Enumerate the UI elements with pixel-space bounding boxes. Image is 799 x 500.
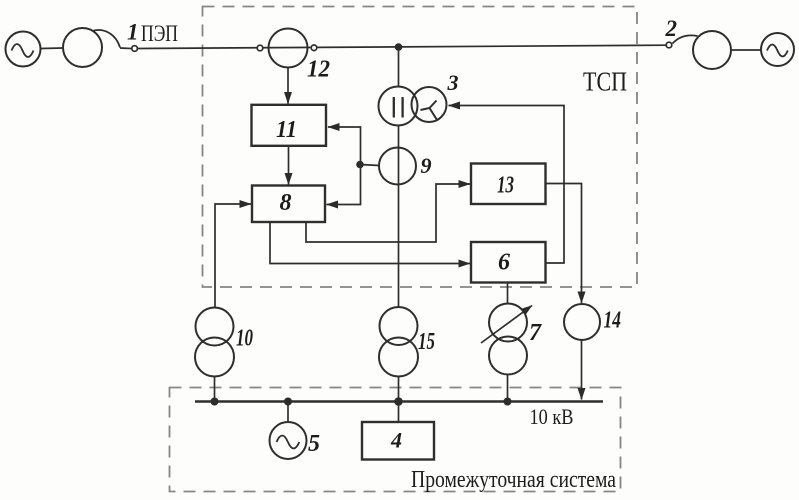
wire junction to box 11 (arrow)	[328, 127, 361, 165]
wire T2 to G2	[731, 49, 762, 51]
svg-text:ТСП: ТСП	[583, 67, 627, 97]
wire from transformer 10 up to box 8 (arrow)	[215, 204, 251, 308]
node 2 terminal	[666, 42, 672, 48]
transformer 15	[380, 307, 418, 345]
svg-text:13: 13	[497, 173, 514, 199]
main top bus wire	[138, 45, 667, 48]
svg-text:8: 8	[280, 190, 292, 216]
intermediate system dashed boundary	[170, 388, 621, 492]
CT node right of 12	[311, 45, 317, 51]
generator G1 left	[6, 32, 41, 67]
transformer T1 circle	[63, 28, 102, 67]
transformer T2 circle	[693, 31, 731, 69]
bus 10 kV	[195, 400, 603, 403]
switch curve at node 1	[92, 30, 120, 47]
svg-text:10: 10	[236, 326, 253, 352]
svg-text:1: 1	[127, 20, 139, 45]
transformer 3 left circle	[379, 87, 418, 126]
svg-text:ПЭП: ПЭП	[141, 21, 178, 46]
box 11	[252, 105, 327, 146]
instrument 14	[564, 304, 600, 340]
svg-text:12: 12	[307, 57, 330, 83]
svg-text:6: 6	[498, 250, 510, 276]
transformer 10	[196, 308, 234, 346]
generator G2 right	[761, 33, 794, 66]
central vertical wire upper	[398, 47, 400, 87]
svg-text:15: 15	[418, 329, 435, 355]
svg-text:9: 9	[421, 153, 432, 178]
wire G1 to T1	[41, 47, 63, 50]
wire 14 to bus (arrow)	[581, 340, 583, 400]
wire junction to box 8 (arrow)	[327, 165, 361, 205]
svg-text:11: 11	[276, 117, 297, 143]
transformer 3 right circle	[412, 87, 447, 122]
box 6	[471, 242, 546, 283]
box 8	[252, 186, 325, 223]
wire 15 to bus	[398, 377, 400, 402]
svg-text:Промежуточная система: Промежуточная система	[411, 467, 616, 493]
junction on top bus	[395, 43, 403, 51]
svg-text:3: 3	[447, 70, 459, 95]
junction left of 9	[356, 161, 364, 169]
wire 7 to bus	[507, 375, 509, 402]
wire 8 to 6 (arrow)	[270, 222, 470, 264]
wire junction to 9	[360, 165, 380, 166]
generator 5	[284, 398, 292, 406]
TSP dashed boundary	[203, 7, 638, 288]
svg-text:4: 4	[390, 428, 402, 453]
wire 8 to 13 (arrow)	[306, 184, 470, 242]
instrument 9	[379, 148, 416, 185]
wire 13 to instrument 14 (arrow)	[546, 184, 582, 304]
svg-text:7: 7	[529, 320, 542, 346]
node 1 terminal	[132, 46, 138, 52]
svg-text:2: 2	[665, 16, 678, 41]
wire 6 feedback to transformer 3 (arrow)	[449, 106, 565, 264]
central vertical wire through 9 down to transformer 15	[398, 126, 400, 308]
box 13	[471, 164, 546, 205]
arrow 12 to 11	[287, 68, 289, 104]
arrow 11 to 8	[288, 146, 290, 185]
wire 6 down to transformer 7	[507, 283, 509, 305]
svg-text:14: 14	[604, 308, 622, 334]
wire 10 to bus	[214, 377, 216, 402]
CT node left of 12	[257, 45, 263, 51]
svg-text:5: 5	[308, 431, 320, 457]
svg-text:10 кВ: 10 кВ	[530, 404, 574, 429]
switch curve at node 2	[673, 35, 698, 43]
wye symbol in 3	[421, 101, 438, 121]
box 4	[398, 402, 400, 422]
instrument 12	[269, 29, 308, 68]
transformer 7 variable	[489, 304, 527, 342]
